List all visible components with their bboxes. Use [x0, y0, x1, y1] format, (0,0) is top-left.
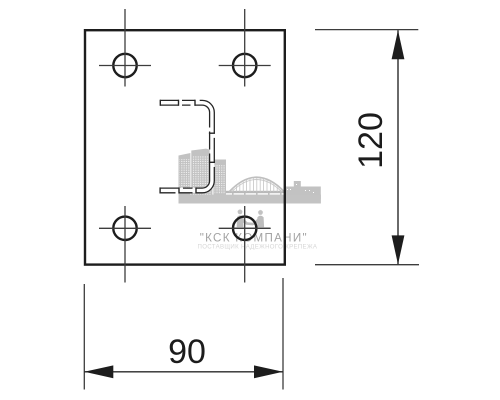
dim 90 arrow left	[84, 365, 113, 378]
hole bottom-left circle	[113, 217, 136, 240]
skyline right low buildings	[285, 187, 321, 200]
dim 90 line	[84, 371, 283, 373]
svg-text:120: 120	[352, 112, 390, 169]
bridge piers	[232, 193, 282, 196]
hole bottom-right circle	[233, 217, 256, 240]
hole bottom-left crosshair	[99, 227, 151, 229]
dim 120 arrow top	[392, 30, 405, 59]
rod tick bottom bar 2	[195, 187, 197, 193]
plate outline	[85, 30, 285, 264]
rod tick top bar 2	[194, 100, 196, 106]
dim 120 line	[397, 30, 399, 264]
hole top-left circle	[113, 54, 136, 77]
left person	[237, 209, 243, 211]
hole top-right circle	[233, 54, 256, 77]
hole top-right crosshair	[219, 65, 271, 67]
rod tick bottom bar 1	[178, 187, 180, 193]
dim 90 arrow right	[254, 365, 283, 378]
skyline base strip	[179, 195, 321, 204]
dim 120 extension line bottom	[315, 264, 419, 266]
rod tick top bar 1	[178, 100, 180, 106]
hidden rod white tube fill	[160, 103, 212, 191]
svg-text:90: 90	[168, 333, 206, 371]
hole bottom-right crosshair	[219, 227, 271, 229]
rod tick vertical 1	[209, 132, 215, 134]
hidden rod outer dashed line	[160, 100, 214, 192]
bridge hangers	[233, 178, 281, 192]
dim 90 extension line right	[282, 278, 284, 390]
watermark people figures	[233, 209, 270, 228]
building left	[179, 153, 191, 199]
watermark skyline group	[179, 149, 321, 204]
dim 90 extension line left	[83, 284, 85, 390]
bridge arch	[229, 177, 285, 192]
rod end cap bottom	[159, 187, 161, 193]
rod end cap top	[159, 100, 161, 106]
bridge deck	[226, 191, 286, 193]
hole top-left crosshair	[99, 65, 151, 67]
right person	[258, 210, 264, 212]
dim 120 extension line top	[315, 29, 418, 31]
hidden rod inner dashed line	[160, 105, 210, 188]
building right	[213, 160, 226, 200]
ground line	[233, 227, 270, 228]
svg-text:ПОСТАВЩИК НАДЕЖНОГО КРЕПЕЖА: ПОСТАВЩИК НАДЕЖНОГО КРЕПЕЖА	[198, 243, 318, 250]
dim 120 arrow bottom	[392, 235, 405, 264]
building tall middle	[191, 149, 212, 199]
rod tick vertical 2	[209, 161, 215, 163]
